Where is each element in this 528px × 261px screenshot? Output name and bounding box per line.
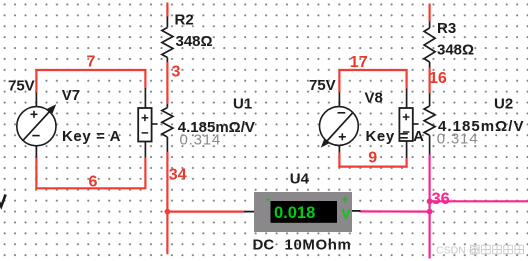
svg-text:V8: V8 [365,90,383,107]
wire net 36 vertical [429,155,431,259]
svg-text:R3: R3 [437,20,456,37]
wire net into R3 top [429,4,431,23]
multimeter minus terminal mark [266,199,270,201]
wire left side lower of V8 [338,153,340,168]
svg-text:Key = A: Key = A [62,128,121,145]
svg-text:75V: 75V [309,77,336,94]
wire left side upper of V8 [338,69,340,93]
wire net into R2 top [166,3,168,17]
resistor U1 [162,104,173,152]
V7 minus sign [32,135,39,137]
multimeter U4 body [254,192,352,232]
wire right side upper right loop [406,69,408,89]
ammeter box left plus [142,115,149,122]
source V8 circle [320,107,359,146]
pin stub V7 top [35,93,37,108]
ammeter box right minus [403,131,410,133]
junction net 36 upper [427,198,433,204]
svg-text:DC: DC [253,236,275,253]
wire right side lower left loop [144,158,146,190]
V8 arrow [321,112,353,147]
svg-text:0.314: 0.314 [180,132,222,149]
svg-text:V: V [342,207,351,222]
watermark CSDN [436,245,524,257]
svg-text:0.018: 0.018 [274,204,315,222]
svg-text:17: 17 [350,54,368,71]
V7 arrow [23,104,57,141]
wire net 34 vertical [166,152,168,254]
multimeter U4 display [271,201,338,223]
pin stub V8 bottom [338,145,340,152]
resistor U2 [424,93,435,154]
svg-text:3: 3 [172,64,181,81]
wire net 16 [429,68,431,94]
svg-text:9: 9 [368,150,377,167]
svg-text:348Ω: 348Ω [437,42,474,59]
resistor R3 [424,22,435,68]
multimeter left pin stub [244,211,255,213]
wire net 9 bottom of right loop [338,166,407,168]
multimeter plus terminal mark [343,197,348,202]
svg-text:34: 34 [169,167,187,184]
ammeter box right [399,108,412,141]
pin stub ammeter2 top [406,89,408,109]
partial V label at left edge [0,195,6,207]
resistor R2 [162,17,173,63]
svg-text:U4: U4 [290,170,310,187]
ammeter box left minus [142,132,149,134]
ammeter box right plus [403,114,410,121]
wire net 36 to multimeter [361,210,430,212]
wire net 6 bottom of left loop [35,187,145,189]
junction net 36 lower [427,209,433,215]
pin stub ammeter2 bottom [406,141,408,158]
svg-text:U2: U2 [494,95,513,112]
svg-text:348Ω: 348Ω [176,33,213,50]
ammeter box left side pin [152,123,158,125]
svg-text:36: 36 [432,190,450,208]
svg-text:U1: U1 [233,95,252,112]
V8 minus sign [338,112,346,114]
svg-text:7: 7 [87,54,96,71]
svg-text:75V: 75V [8,78,35,95]
svg-text:0.314: 0.314 [437,131,479,148]
svg-text:16: 16 [429,70,447,87]
svg-text:10MOhm: 10MOhm [285,236,352,253]
svg-text:CSDN @: CSDN @ [436,245,479,257]
multimeter right pin stub [352,210,361,212]
pin stub V8 top [338,93,340,108]
svg-text:6: 6 [89,173,98,190]
ammeter box right side pin [413,123,419,125]
wire net 7 top of left loop [36,69,145,71]
wire right side lower right loop [406,158,408,168]
wire left side upper of V7 [35,69,37,93]
pin stub ammeter1 bottom [144,142,146,158]
svg-text:R2: R2 [175,12,194,29]
wire net 36 to right edge [430,200,528,202]
ammeter box left [138,108,151,142]
wire net 3 [166,62,168,104]
wire left side lower of V7 [35,158,37,190]
V8 plus sign [339,133,346,140]
svg-text:V7: V7 [62,87,80,104]
wire right side upper left loop [144,69,146,88]
V7 plus sign [31,111,38,118]
source V7 circle [17,107,56,146]
svg-text:Key = A: Key = A [366,128,425,145]
pin stub ammeter1 top [144,88,146,108]
wire net 17 top of right loop [339,69,406,71]
wire net 34 to multimeter [167,211,244,213]
junction net 34 [165,209,171,215]
pin stub V7 bottom [35,146,37,158]
